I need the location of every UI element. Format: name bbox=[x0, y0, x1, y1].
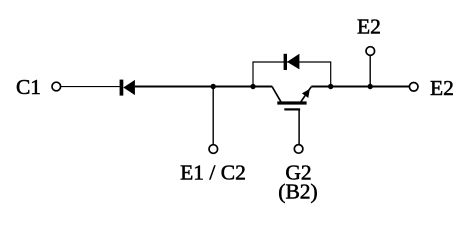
wire emitter node to E2 right terminal bbox=[311, 86, 409, 88]
junction dot collector node bbox=[250, 84, 255, 89]
diode D1 triangle bbox=[123, 80, 135, 95]
IGBT Q2 collector diagonal bbox=[272, 87, 281, 102]
IGBT Q2 emitter arrow bbox=[303, 90, 309, 97]
terminal circle E2 right bbox=[409, 83, 418, 92]
IGBT Q2 gate bar bbox=[284, 108, 300, 110]
junction dot node E1/C2 bbox=[211, 84, 216, 89]
wire node to IGBT collector junction bbox=[213, 86, 272, 88]
terminal circle E1/C2 bbox=[209, 145, 218, 154]
freewheel diode D2 cathode bar bbox=[284, 54, 287, 70]
svg-text:E2: E2 bbox=[430, 76, 454, 100]
wire freewheel diode loop bbox=[253, 62, 331, 87]
IGBT Q2 emitter diagonal bbox=[301, 87, 312, 103]
wire diode D1 to node E1/C2 bbox=[135, 86, 213, 88]
svg-text:E1 / C2: E1 / C2 bbox=[180, 160, 246, 184]
IGBT Q2 gate lead wire bbox=[298, 109, 300, 144]
svg-text:C1: C1 bbox=[16, 75, 41, 99]
wire up to E2 top terminal bbox=[369, 55, 371, 86]
terminal circle C1 bbox=[52, 82, 61, 91]
wire node down to E1/C2 terminal bbox=[212, 87, 214, 145]
svg-text:E2: E2 bbox=[357, 15, 381, 39]
terminal circle G2 bbox=[294, 145, 303, 154]
terminal circle E2 top bbox=[366, 47, 375, 56]
IGBT Q2 channel bar bbox=[277, 101, 306, 104]
freewheel diode D2 triangle bbox=[287, 54, 299, 70]
wire C1 to diode D1 bbox=[61, 86, 119, 88]
diode D1 cathode bar bbox=[120, 80, 124, 96]
junction dot E2 tap bbox=[368, 84, 373, 89]
svg-text:(B2): (B2) bbox=[278, 179, 317, 203]
junction dot emitter node bbox=[328, 84, 333, 89]
